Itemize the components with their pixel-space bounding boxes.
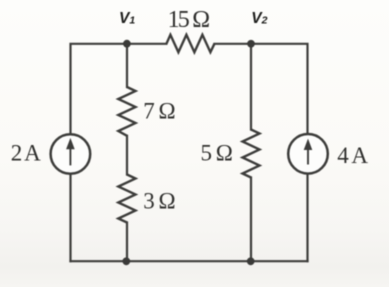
- svg-text:5 Ω: 5 Ω: [201, 140, 232, 165]
- svg-text:V1: V1: [119, 10, 135, 27]
- svg-text:4 A: 4 A: [337, 143, 368, 168]
- svg-text:7 Ω: 7 Ω: [143, 99, 174, 124]
- svg-text:15 Ω: 15 Ω: [168, 7, 210, 33]
- svg-text:2 A: 2 A: [11, 141, 41, 166]
- svg-text:3 Ω: 3 Ω: [143, 189, 174, 214]
- svg-text:V2: V2: [251, 10, 267, 27]
